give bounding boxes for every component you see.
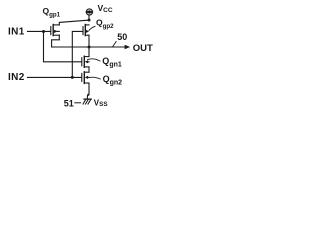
wire: Qgn2 source down to ground (with jog) <box>87 83 89 99</box>
svg-text:Qgp2: Qgp2 <box>96 17 114 30</box>
transistor Q_gp1 (PMOS) <box>51 25 60 36</box>
label 50 <box>117 32 127 42</box>
wire: Qgp2 drain to output node <box>88 35 90 47</box>
wire: Qgn1 source to Qgn2 drain <box>88 67 90 72</box>
wire: Vcc rail (Qgp1 drain up, across to Qgp2) <box>59 20 89 25</box>
wire: IN2 input to Qgn2 gate <box>28 76 82 78</box>
svg-text:50: 50 <box>117 32 127 42</box>
arrowhead to OUT <box>125 45 131 49</box>
leader line for 50 <box>113 42 117 47</box>
wire: output line (node 50) <box>52 46 126 48</box>
leader line for Qgp2 <box>89 26 95 30</box>
svg-text:Qgn2: Qgn2 <box>103 74 123 87</box>
svg-text:VCC: VCC <box>98 3 113 14</box>
node: output junction <box>88 46 91 49</box>
node: Vcc rail junction <box>88 19 91 22</box>
wire: IN2 riser to Qgp2 gate <box>72 31 83 77</box>
leader line for Qgn1 <box>88 59 100 61</box>
label 51 <box>64 98 74 108</box>
label IN2 <box>8 72 25 83</box>
label OUT <box>133 43 153 54</box>
label Qgp2 <box>96 17 114 30</box>
svg-text:IN1: IN1 <box>8 27 25 38</box>
wire: output node down to Qgn1 drain <box>88 47 90 57</box>
wire: Qgp1 drain jog down to output line <box>52 35 60 47</box>
node: ground wire jog blob <box>87 94 89 96</box>
power terminal Vcc <box>85 9 94 20</box>
svg-text:OUT: OUT <box>133 43 153 54</box>
label Vss <box>94 98 108 108</box>
svg-text:51: 51 <box>64 98 74 108</box>
node: IN2 junction <box>71 76 74 79</box>
leader line for Qgn2 <box>90 77 101 79</box>
label Qgp1 <box>43 6 61 19</box>
svg-text:VSS: VSS <box>94 98 108 108</box>
node: IN1 junction <box>42 30 45 33</box>
svg-text:Qgp1: Qgp1 <box>43 6 61 19</box>
ground Vss (chassis ground) <box>83 99 91 104</box>
wire: IN1 riser to Qgn1 gate <box>44 32 82 62</box>
label Qgn2 <box>103 74 123 87</box>
transistor Q_gp2 (PMOS) <box>83 25 89 36</box>
label IN1 <box>8 27 25 38</box>
svg-text:IN2: IN2 <box>8 72 25 83</box>
label Qgn1 <box>102 56 122 69</box>
transistor Q_gn2 (NMOS) <box>82 72 89 84</box>
wire: IN1 input to Qgp1 gate <box>28 30 51 32</box>
label Vcc <box>98 3 113 14</box>
leader line for 51 <box>75 102 81 104</box>
transistor Q_gn1 (NMOS) <box>82 56 89 67</box>
svg-text:Qgn1: Qgn1 <box>102 56 122 69</box>
